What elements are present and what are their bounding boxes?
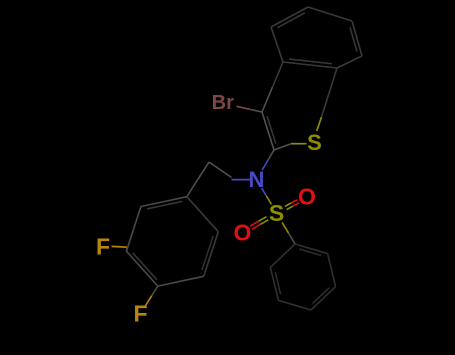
benzo ring bond C5-C6 bbox=[308, 7, 330, 14]
phenyl ring bond C1-C2 (double) bbox=[295, 244, 311, 249]
aryl ring bond C2-C3 bbox=[134, 207, 141, 229]
double bond S=O (lower left) second line bbox=[260, 220, 268, 225]
svg-text:O: O bbox=[234, 220, 252, 246]
double bond S=O (upper right) bbox=[287, 206, 293, 209]
bond C4-F2 bbox=[152, 286, 158, 296]
bond C2=C3 inner line bbox=[267, 116, 276, 144]
bond C2-C3 (double) bbox=[268, 131, 274, 150]
bond C1-C2 inner line bbox=[299, 249, 321, 256]
bond C3-C3a bbox=[262, 87, 273, 112]
bond S1-C2 (olive half, horizontal entry to S) bbox=[291, 143, 307, 145]
bond N-S(sulfonyl) bbox=[262, 188, 267, 196]
svg-text:Br: Br bbox=[212, 92, 234, 114]
bond C3-Br bbox=[249, 109, 262, 112]
bond N-CH2 (blue half, horizontal entry to N) bbox=[232, 179, 251, 181]
benzo ring bond C7-C7a bbox=[350, 56, 363, 62]
bond C1=C2 inner line bbox=[147, 201, 182, 209]
bond C5=C6 inner line bbox=[202, 236, 213, 270]
svg-text:F: F bbox=[133, 301, 147, 327]
aryl ring bond C6-C1 bbox=[203, 214, 219, 232]
bond C3-C4 inner line bbox=[313, 288, 330, 304]
svg-text:S: S bbox=[307, 130, 322, 155]
aryl ring bond C1-C2 (double) bbox=[164, 197, 187, 202]
bond S1-C2 (gray half) bbox=[274, 144, 291, 150]
svg-text:O: O bbox=[298, 184, 316, 210]
aryl ring bond C3-C4 (double) bbox=[126, 251, 142, 268]
bond C7a-S1 (gray half) bbox=[322, 68, 338, 117]
svg-text:N: N bbox=[249, 167, 265, 192]
bond CH2-C1(aryl) bbox=[198, 162, 209, 179]
bond S-C1(phenyl) bbox=[282, 222, 289, 233]
svg-text:S: S bbox=[269, 200, 284, 226]
double bond S=O (upper right) second line bbox=[285, 203, 291, 206]
bond C4=C5 inner line bbox=[278, 13, 305, 28]
benzo ring bond C6-C7 (double) bbox=[352, 21, 357, 39]
phenyl ring bond C5-C6 (double) bbox=[274, 284, 278, 301]
aryl ring bond C4-C5 bbox=[158, 281, 181, 286]
bond C7a-S1 (olive half entering S label) bbox=[317, 117, 322, 131]
benzo ring bond C4-C5 (double) bbox=[271, 17, 290, 27]
phenyl ring bond C3-C4 (double) bbox=[323, 287, 335, 299]
bond C3a-C7a (fused edge) bbox=[283, 62, 310, 65]
bond C5-C6 inner line bbox=[275, 272, 280, 294]
phenyl ring bond C2-C3 bbox=[328, 254, 332, 271]
bond C3-F1 (gold half, horizontal entry) bbox=[112, 245, 128, 248]
bond C2-N bbox=[268, 150, 274, 160]
benzo ring bond C3a-C4 bbox=[277, 45, 283, 63]
bond C3a=C7a inner line bbox=[289, 59, 332, 64]
bond C6=C7 inner line bbox=[350, 27, 357, 51]
phenyl ring bond C6-C1 bbox=[270, 256, 282, 268]
aryl ring bond C5-C6 (double) bbox=[204, 254, 211, 276]
bond C3=C4 inner line bbox=[133, 253, 157, 280]
bond C3-F1 (gray half) bbox=[125, 247, 128, 251]
double bond S=O (lower left) bbox=[258, 217, 266, 222]
svg-text:F: F bbox=[96, 234, 110, 260]
bond N-CH2 (gray half) bbox=[209, 162, 232, 178]
phenyl ring bond C4-C5 bbox=[295, 305, 311, 310]
